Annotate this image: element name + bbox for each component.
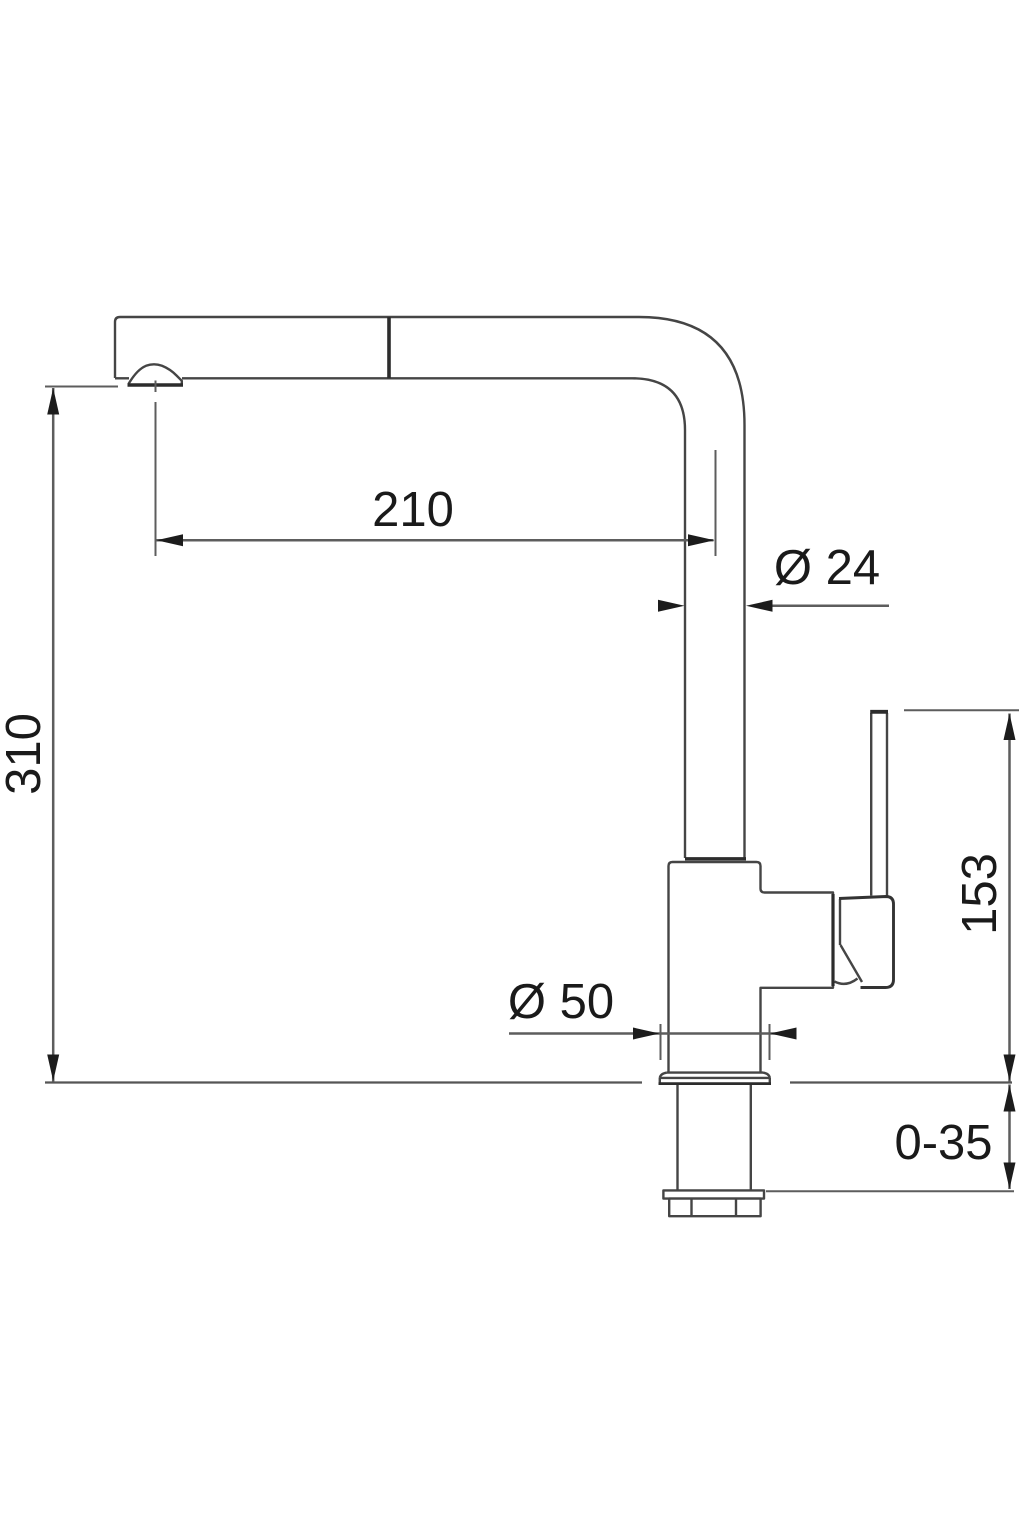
svg-text:Ø 50: Ø 50	[508, 975, 614, 1029]
svg-text:0-35: 0-35	[894, 1116, 992, 1170]
svg-text:310: 310	[0, 713, 51, 795]
svg-text:153: 153	[953, 853, 1007, 935]
svg-text:Ø 24: Ø 24	[774, 541, 880, 595]
svg-text:210: 210	[372, 483, 454, 537]
